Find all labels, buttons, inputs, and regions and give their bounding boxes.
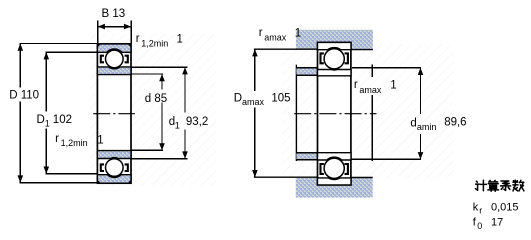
bearing outline [97,44,131,183]
svg-text:102: 102 [53,114,72,126]
char suan [488,180,499,191]
svg-text:0,015: 0,015 [491,201,519,213]
da level line bottom right [351,158,421,160]
arrow Damax bottom [252,170,258,177]
svg-text:1: 1 [45,118,50,128]
cage bottom left [101,164,104,171]
shaft left edge [295,65,297,161]
svg-text:D 110: D 110 [9,90,39,102]
arrow d top [159,74,165,81]
inner ring top (blue) [97,67,131,75]
shaft shoulder top (blue) [296,68,317,75]
svg-text:d: d [410,118,416,130]
svg-text:1: 1 [177,34,183,46]
inner ring bottom (white w groove) [318,153,352,160]
svg-text:r: r [136,33,140,45]
inner ring top (white w groove) [318,70,352,76]
char shu [513,180,524,191]
svg-text:1: 1 [390,80,396,92]
inner ring bottom (blue) [97,151,131,159]
svg-text:93,2: 93,2 [186,116,208,128]
arrow d1 bottom [182,151,188,158]
housing bottom (blue) [296,178,373,198]
svg-text:17: 17 [491,217,503,229]
shaft shoulder bottom edges [296,153,319,160]
arrow d1 top [182,67,188,74]
dimension d1 line [184,67,186,158]
ball top [106,50,124,68]
outer ring bottom (white w groove) [318,178,352,185]
dimension B extension lines [98,20,131,43]
svg-text:r: r [55,133,59,145]
char ji [476,180,487,191]
svg-text:1: 1 [175,120,180,130]
cage bottom right [125,164,128,171]
svg-text:r: r [479,205,482,215]
outer ring top edge (white w groove) [318,42,352,49]
housing top (blue) [296,30,373,50]
cage top left [101,56,104,63]
arrow D bottom [18,175,24,182]
ramax vertical line [371,64,373,161]
arrow Damax top [252,49,258,56]
svg-text:B 13: B 13 [102,8,126,20]
svg-text:amax: amax [359,85,382,95]
svg-text:k: k [473,201,479,213]
arrow damin top [418,68,424,75]
housing shoulder edge top left + Damax ext [254,48,318,50]
arrow D top [18,44,24,51]
svg-text:1: 1 [295,27,301,39]
dimension D extension lines [19,44,97,183]
arrow damin bottom [418,152,424,159]
chinese title 计算系数 drawn as paths [476,180,524,191]
dimension D1 line [45,52,47,174]
svg-text:D: D [37,114,45,126]
ball bottom right [324,158,344,178]
svg-text:r: r [354,79,358,91]
svg-text:amax: amax [264,32,287,42]
svg-text:105: 105 [271,93,290,105]
arrow D1 bottom [44,167,50,174]
svg-text:r: r [259,27,263,39]
shaft shoulder top edges [296,68,318,75]
arrow B right [124,24,131,30]
svg-text:D: D [234,93,242,105]
svg-text:amax: amax [242,97,265,107]
housing shoulder edge top right [351,49,373,51]
arrow B left [98,24,105,30]
svg-text:d 85: d 85 [145,93,167,105]
cage top right [125,56,128,63]
char xi [501,181,511,190]
housing shoulder edge bottom left + Damax ext [254,176,318,178]
watermark hatch left figure [90,34,216,186]
dimension d1 extension lines [131,67,187,158]
da level line top right [352,67,421,69]
dimension D line [19,44,21,183]
shaft shoulder bottom (blue) [296,154,317,160]
svg-text:1,2min: 1,2min [141,39,168,49]
housing shoulder edge bottom right [351,177,373,179]
right bearing outline [318,42,351,185]
dimension damin line [420,68,422,160]
dimension Damax line [254,49,256,177]
outer ring top (blue) [97,44,131,52]
watermark hatch right figure [282,44,454,180]
svg-text:1,2min: 1,2min [61,138,88,148]
dimension d line [161,74,163,150]
cage bottom right bearing [321,164,324,174]
ball top right [324,49,344,69]
dimension B line [98,26,131,28]
arrow d bottom [159,143,165,150]
arrow D1 top [44,52,50,59]
outer ring bottom (blue) [97,175,131,184]
cage top right bearing [321,53,324,63]
svg-text:0: 0 [477,221,482,231]
dimension D1 extension lines [45,52,97,174]
ball bottom [106,159,124,177]
centerline left bearing [93,113,135,115]
dimension d extension lines [131,74,163,150]
centerline right bearing [294,113,376,115]
svg-text:1: 1 [97,135,103,147]
svg-text:89,6: 89,6 [444,117,466,129]
svg-text:amin: amin [417,122,437,132]
